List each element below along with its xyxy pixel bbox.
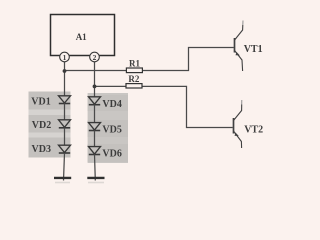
svg-text:VD3: VD3 [32, 144, 51, 155]
grey label panel VD2 row [29, 115, 71, 133]
junction node 1 [63, 69, 67, 73]
svg-text:VD4: VD4 [102, 99, 121, 110]
terminal circle 1 [60, 52, 70, 62]
wire terminal1 to junction 1 [64, 62, 66, 72]
ground left [54, 177, 71, 179]
box A1 [51, 15, 115, 56]
wire terminal2 to junction 2 [94, 62, 96, 87]
wire junction1 to VD1 [64, 71, 66, 96]
wire junction2 to R2 [95, 85, 127, 87]
ground right [87, 177, 104, 179]
grey label panel VD5 row [88, 120, 128, 137]
grey label column left underlay [29, 92, 71, 158]
wire VD3 to ground [64, 153, 65, 181]
svg-text:VD6: VD6 [102, 149, 121, 160]
wire junction1 to R1 [65, 70, 127, 72]
resistor R1 [126, 68, 142, 73]
wire R2 to VT2 base [142, 86, 233, 127]
diode VD3 [59, 145, 71, 153]
svg-text:VD5: VD5 [102, 125, 121, 136]
diode VD4 [89, 97, 101, 105]
diode VD6 [89, 147, 101, 155]
svg-text:2: 2 [93, 53, 97, 62]
wire VD6 to ground [94, 154, 97, 180]
wire VD4-VD5 [94, 105, 96, 123]
diode VD5 [89, 123, 101, 131]
wire junction2 to VD4 [94, 87, 96, 97]
grey label panel VD4 row [88, 95, 128, 111]
svg-text:VT2: VT2 [244, 125, 263, 136]
svg-text:1: 1 [63, 53, 67, 62]
terminal circle 2 [90, 52, 100, 62]
grey label column right block [88, 93, 128, 163]
wire VD1-VD2 [64, 103, 66, 120]
svg-text:VT1: VT1 [244, 44, 263, 55]
diode VD1 [59, 96, 71, 104]
transistor VT2 [234, 100, 242, 148]
grey label panel VD6 row [88, 144, 128, 162]
wire VD2-VD3 [64, 128, 66, 146]
svg-text:A1: A1 [76, 32, 87, 42]
grey label panel VD1 row [29, 92, 71, 110]
junction node 2 [93, 85, 97, 89]
diode VD2 [59, 120, 71, 128]
svg-text:VD1: VD1 [31, 96, 50, 107]
faint scan smudge right ground [88, 182, 104, 184]
transistor VT1 [235, 21, 244, 72]
resistor R2 [126, 84, 142, 88]
wire R1 to VT1 base [142, 48, 233, 71]
grey label panel VD3 row [29, 138, 71, 158]
faint scan smudge left ground [55, 182, 70, 184]
wire VD5-VD6 [94, 130, 96, 146]
svg-text:R2: R2 [128, 74, 139, 84]
svg-text:R1: R1 [129, 58, 140, 68]
svg-text:VD2: VD2 [32, 120, 51, 131]
